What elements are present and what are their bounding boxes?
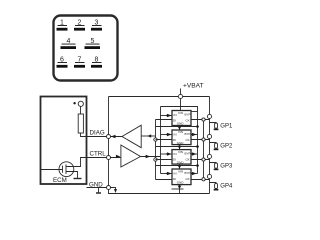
U4 DI wire bbox=[156, 179, 173, 181]
U3 sense stub bbox=[191, 153, 198, 155]
pin 5 bbox=[85, 38, 101, 49]
GP2 branch wire bbox=[210, 142, 217, 145]
left rail (big box left edge) bbox=[108, 97, 110, 188]
MOSFET Q1 circle bbox=[59, 162, 74, 177]
pin 4 bbox=[61, 38, 77, 49]
pin 2 bbox=[74, 20, 85, 31]
svg-text:GND: GND bbox=[177, 141, 185, 145]
U3 IN wire bbox=[161, 153, 173, 155]
bus B2 vertical bbox=[160, 107, 162, 174]
pin 3 bbox=[91, 20, 102, 31]
wrap wire W1 bbox=[161, 107, 198, 112]
connector J1 outline bbox=[54, 16, 118, 81]
node R1-2 bbox=[207, 134, 211, 138]
svg-text:CK: CK bbox=[186, 138, 190, 142]
svg-text:BYP: BYP bbox=[185, 132, 191, 136]
svg-text:BYP: BYP bbox=[185, 113, 191, 117]
GP2 terminal bbox=[215, 143, 218, 148]
svg-text:BYP: BYP bbox=[185, 152, 191, 156]
top rail wire bbox=[109, 96, 210, 98]
wire terminal to resistor bbox=[80, 106, 82, 114]
driver U3 box bbox=[172, 150, 191, 165]
node OUT3 bbox=[202, 158, 205, 161]
pin 1 bbox=[57, 20, 68, 31]
node DIAG junction bbox=[107, 135, 111, 139]
node OUT4 bbox=[202, 178, 205, 181]
resistor R1 bbox=[78, 114, 83, 133]
node OUT2 bbox=[202, 138, 205, 141]
svg-text:VIN: VIN bbox=[178, 169, 183, 173]
node GND junction bbox=[107, 186, 111, 190]
node B1-DI2 bbox=[154, 138, 157, 141]
svg-text:DI: DI bbox=[173, 158, 176, 162]
U4 ground drop bbox=[179, 185, 181, 194]
GP1 branch wire bbox=[210, 122, 217, 125]
driver U4 box bbox=[172, 169, 191, 185]
svg-text:CK: CK bbox=[186, 119, 190, 123]
svg-text:IN: IN bbox=[174, 152, 177, 156]
ECM box U-ECM bbox=[41, 97, 87, 185]
Q1 gate bar bbox=[62, 166, 64, 173]
A2 output wire bbox=[141, 156, 161, 158]
svg-text:+VBAT: +VBAT bbox=[183, 83, 204, 90]
CTRL wire bbox=[87, 157, 121, 159]
U1 pin labels bbox=[173, 111, 191, 126]
U3 OUT wire bbox=[191, 159, 210, 161]
node R1-3 bbox=[207, 154, 211, 158]
svg-text:CK: CK bbox=[186, 177, 190, 181]
svg-text:IN: IN bbox=[174, 132, 177, 136]
U4 ground bar bbox=[172, 188, 184, 190]
buffer A2 (CTRL, points right) bbox=[121, 145, 141, 167]
buffer A1 (DIAG, points left) bbox=[122, 125, 141, 148]
U3 pin labels bbox=[173, 150, 191, 165]
node R1-1 bbox=[207, 114, 211, 118]
wrap wire W3 bbox=[156, 146, 198, 148]
VBAT node bbox=[178, 94, 182, 98]
VBAT stub wire bbox=[180, 89, 182, 97]
svg-text:GP2: GP2 bbox=[220, 143, 233, 149]
right vertical R3 bbox=[197, 112, 199, 174]
A2 input arrow bbox=[116, 155, 120, 158]
node R1-4 bbox=[207, 174, 211, 178]
Q1 drain wire bbox=[66, 158, 87, 167]
svg-text:CTRL: CTRL bbox=[90, 150, 107, 157]
GP1 terminal bbox=[215, 123, 218, 128]
GP4 branch wire bbox=[210, 182, 217, 185]
asterisk dot bbox=[73, 102, 75, 104]
chain wire U2-U3 bbox=[179, 145, 181, 150]
U1 OUT wire bbox=[191, 119, 210, 121]
wrap wire W2 bbox=[156, 126, 198, 128]
GP4 terminal bbox=[215, 183, 218, 188]
svg-text:GP4: GP4 bbox=[220, 184, 233, 190]
svg-text:GND: GND bbox=[177, 180, 185, 184]
GND wire bbox=[87, 187, 109, 189]
svg-text:DI: DI bbox=[173, 177, 176, 181]
junction dot W3 bbox=[196, 145, 199, 148]
VBAT drop to U1 bbox=[180, 99, 182, 111]
OUT collect vertical bbox=[203, 120, 205, 180]
U1 sense stub bbox=[191, 111, 198, 113]
U1 DI wire bbox=[156, 119, 173, 121]
U1 IN wire bbox=[161, 115, 173, 117]
driver U2 box bbox=[172, 130, 191, 145]
svg-text:GND: GND bbox=[177, 122, 185, 126]
svg-text:DI: DI bbox=[173, 119, 176, 123]
pin 6 bbox=[57, 57, 68, 68]
U4 IN wire bbox=[161, 173, 173, 175]
svg-text:BYP: BYP bbox=[185, 171, 191, 175]
svg-text:GP3: GP3 bbox=[220, 163, 233, 169]
GND jog arrow wire bbox=[111, 188, 116, 190]
A1 input wire bbox=[141, 135, 155, 137]
ground symbol bbox=[98, 188, 100, 194]
U4 pin labels bbox=[173, 169, 191, 184]
wrap wire W4 bbox=[156, 165, 198, 167]
Q1 gate wire bbox=[41, 169, 63, 171]
svg-text:VIN: VIN bbox=[178, 130, 183, 134]
DIAG wire bbox=[87, 136, 123, 138]
svg-text:GND: GND bbox=[177, 160, 185, 164]
U4 OUT wire bbox=[191, 179, 210, 181]
wire resistor to DIAG bbox=[81, 133, 87, 137]
U2 DI wire bbox=[156, 139, 173, 141]
U3 DI wire bbox=[156, 159, 173, 161]
chain wire U1-U2 bbox=[179, 126, 181, 131]
pin 7 bbox=[74, 57, 85, 68]
pin 8 bbox=[91, 57, 102, 68]
svg-text:CK: CK bbox=[186, 158, 190, 162]
U4 sense stub bbox=[191, 173, 198, 175]
node CTRL junction bbox=[107, 156, 111, 160]
junction dot W2 bbox=[196, 125, 199, 128]
svg-text:VIN: VIN bbox=[178, 150, 183, 154]
svg-text:ECM: ECM bbox=[53, 177, 67, 184]
Q1 channel bar bbox=[65, 164, 67, 174]
svg-text:GP1: GP1 bbox=[220, 123, 233, 129]
A1 output arrow bbox=[110, 136, 122, 138]
U2 IN wire bbox=[161, 134, 173, 136]
chain wire U3-U4 bbox=[179, 164, 181, 169]
U2 OUT wire bbox=[191, 139, 210, 141]
bus B1 vertical bbox=[155, 120, 157, 180]
node B1-DI3 bbox=[154, 158, 157, 161]
GND drop wire bbox=[109, 190, 210, 194]
svg-text:IN: IN bbox=[174, 113, 177, 117]
svg-text:VIN: VIN bbox=[178, 111, 183, 115]
junction dot W4 bbox=[196, 164, 199, 167]
U2 sense stub bbox=[191, 134, 198, 136]
node OUT1 bbox=[202, 118, 205, 121]
Q1 source wire bbox=[66, 172, 78, 179]
GP3 branch wire bbox=[210, 162, 217, 165]
svg-text:DI: DI bbox=[173, 138, 176, 142]
terminal circle inside ECM bbox=[78, 101, 83, 106]
GP3 terminal bbox=[215, 163, 218, 168]
svg-text:IN: IN bbox=[174, 172, 177, 176]
svg-text:DIAG: DIAG bbox=[90, 130, 105, 137]
Q1 source ground bar bbox=[74, 178, 82, 180]
U2 pin labels bbox=[173, 130, 191, 145]
driver U1 box bbox=[172, 111, 191, 126]
right rail R1 bbox=[209, 97, 211, 194]
